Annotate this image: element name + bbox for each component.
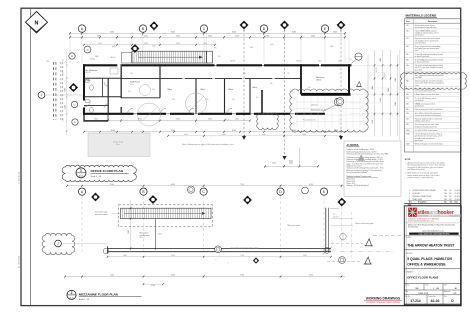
svg-text:4000: 4000 <box>262 134 266 136</box>
mezzanine grid bubble C <box>200 188 207 195</box>
svg-text:2420: 2420 <box>98 43 102 45</box>
svg-text:6100: 6100 <box>309 275 313 277</box>
small diamond marker bottom <box>253 258 259 264</box>
entry porch <box>84 115 108 122</box>
svg-text:3900: 3900 <box>138 119 142 121</box>
svg-text:9000: 9000 <box>289 160 293 162</box>
stair left landing <box>122 53 132 64</box>
window tag circles left <box>69 53 78 125</box>
svg-text:2850: 2850 <box>208 119 212 121</box>
svg-text:2650: 2650 <box>63 71 65 75</box>
svg-text:430: 430 <box>406 104 409 106</box>
svg-text:2600: 2600 <box>235 35 239 37</box>
svg-text:330: 330 <box>128 91 131 93</box>
mezzanine bottom dim line <box>107 255 332 258</box>
svg-text:A1 NOTES: A1 NOTES <box>347 144 359 147</box>
mezzanine top dim line <box>66 184 345 187</box>
svg-text:www.stilesandhooker.co.nz: www.stilesandhooker.co.nz <box>422 229 444 232</box>
svg-text:360: 360 <box>172 99 175 101</box>
svg-text:Wall = R2.2: Wall = R2.2 <box>347 179 355 181</box>
svg-text:85 m²: 85 m² <box>116 143 121 146</box>
svg-text:6100: 6100 <box>171 184 175 186</box>
svg-text:T420: T420 <box>406 143 410 145</box>
mezzanine floor edge <box>103 246 331 253</box>
office plan top extension lines <box>70 32 349 64</box>
left margin fold line <box>30 8 32 305</box>
svg-text:protection barrier: protection barrier <box>95 213 108 216</box>
svg-text:3600: 3600 <box>176 35 180 37</box>
svg-text:Note: all dimensions to edge o: Note: all dimensions to edge of slab and… <box>182 143 235 146</box>
office inner north wall with windows <box>121 77 302 79</box>
svg-text:17-214: 17-214 <box>410 299 420 303</box>
svg-text:3500: 3500 <box>97 35 101 37</box>
svg-text:4575: 4575 <box>112 46 116 48</box>
svg-text:17-214 A1-02: 17-214 A1-02 <box>18 171 21 184</box>
mezzanine left leader text <box>95 212 121 216</box>
detail balloon circle office <box>186 93 207 114</box>
svg-text:Toilet: Toilet <box>86 79 91 82</box>
svg-text:BC: BC <box>450 193 452 195</box>
svg-text:2800: 2800 <box>144 35 148 37</box>
svg-text:7700: 7700 <box>240 275 244 277</box>
mezzanine floor plan title <box>67 290 142 301</box>
svg-text:OFFICE & WAREHOUSE: OFFICE & WAREHOUSE <box>407 263 446 267</box>
office plan top dimension line row 2 <box>69 35 346 38</box>
svg-text:6100: 6100 <box>111 130 115 132</box>
grid bubble C top <box>200 25 207 32</box>
office bottom exterior wall <box>83 113 325 115</box>
svg-text:7700: 7700 <box>240 184 244 186</box>
mezzanine lower dim row <box>64 275 345 287</box>
staff room partition <box>121 64 160 98</box>
revision cloud small <box>257 113 279 130</box>
svg-text:210: 210 <box>243 73 246 75</box>
grid bubble B top <box>139 25 146 32</box>
svg-text:Scale 1 : 50: Scale 1 : 50 <box>91 176 102 178</box>
mezzanine right wall <box>323 208 347 255</box>
svg-text:250: 250 <box>63 59 65 62</box>
svg-text:150 min: 150 min <box>333 217 339 219</box>
concrete yard shaded <box>88 133 150 157</box>
working drawings stamp <box>364 297 402 304</box>
section diamond topleft <box>131 44 139 52</box>
svg-text:3200: 3200 <box>380 98 382 102</box>
svg-text:WORKING DRAWINGS: WORKING DRAWINGS <box>366 297 400 301</box>
svg-text:mezz edge protection barrier t: mezz edge protection barrier to detail <box>231 246 259 249</box>
svg-text:Item: Item <box>406 20 410 23</box>
svg-text:landing: landing <box>90 59 95 61</box>
svg-text:Drawing No.: Drawing No. <box>428 296 436 298</box>
dashed leader y235 <box>373 235 403 237</box>
svg-text:JUNE 2018: JUNE 2018 <box>418 293 429 295</box>
section marker diamond top at x=244 <box>240 21 249 31</box>
section line x284.5 <box>283 30 287 160</box>
svg-text:340: 340 <box>406 65 409 67</box>
svg-text:A1-02: A1-02 <box>431 299 440 303</box>
svg-text:Mezz safe barrier gate: Mezz safe barrier gate <box>356 222 374 225</box>
svg-text:Office: Office <box>167 89 172 91</box>
svg-text:5800: 5800 <box>372 86 374 90</box>
svg-text:360: 360 <box>406 81 409 83</box>
svg-text:RE ISSUED: RE ISSUED <box>413 193 421 195</box>
svg-text:350: 350 <box>406 73 409 75</box>
svg-text:MB: MB <box>445 196 447 198</box>
svg-text:520: 520 <box>406 124 409 126</box>
right dim extra marks <box>368 50 400 140</box>
section marker diamond top at x=341 <box>337 21 346 31</box>
svg-text:DISTRIBUTED FOR BUILDING CONSE: DISTRIBUTED FOR BUILDING CONSENT PURPOSE… <box>366 302 400 304</box>
svg-text:6100: 6100 <box>171 275 175 277</box>
mezzanine section diamond at x=95.5 <box>91 193 99 201</box>
svg-text:A1 ORIGINAL: A1 ORIGINAL <box>18 255 21 268</box>
title block client <box>404 236 461 250</box>
office bottom dim row 1 <box>83 119 251 122</box>
svg-text:1200 W: 1200 W <box>230 61 236 63</box>
svg-text:1 : 100: 1 : 100 <box>433 288 440 290</box>
revision cloud on legend <box>401 73 467 90</box>
A1 notes box <box>344 141 401 196</box>
svg-text:NOTE:: NOTE: <box>405 159 411 161</box>
svg-text:6100: 6100 <box>110 31 114 33</box>
svg-text:Scale: Scale <box>425 284 429 286</box>
svg-text:22.05.18: 22.05.18 <box>455 193 461 195</box>
dashdot line right of mezzanine <box>340 251 394 253</box>
title block contact text <box>404 218 461 235</box>
svg-text:210: 210 <box>287 73 290 75</box>
misc small dims near stair <box>90 44 352 62</box>
lower dim line right <box>264 148 319 167</box>
title block outline <box>404 206 461 306</box>
svg-text:2420: 2420 <box>94 119 98 121</box>
misc material tags in rooms <box>110 56 311 121</box>
svg-text:finish.: finish. <box>415 50 420 52</box>
mezzanine grid dashed lines <box>82 196 342 253</box>
svg-text:6100: 6100 <box>171 31 175 33</box>
detail tag right top <box>352 53 363 64</box>
mezzanine section diamond at x=341.8 <box>338 198 346 206</box>
svg-text:6100: 6100 <box>110 275 114 277</box>
section line x244 <box>242 30 246 140</box>
svg-text:MB: MB <box>445 190 447 192</box>
svg-text:1200: 1200 <box>338 61 342 63</box>
svg-text:T410: T410 <box>406 134 410 136</box>
svg-text:6100: 6100 <box>309 184 313 186</box>
detail balloon circle lobby <box>138 103 161 126</box>
svg-text:90: 90 <box>350 59 352 61</box>
mezzanine stair <box>121 208 212 218</box>
svg-text:MB: MB <box>445 193 447 195</box>
150 min dim <box>331 214 353 219</box>
svg-text:21.03.18: 21.03.18 <box>455 199 461 201</box>
svg-text:6100: 6100 <box>171 130 175 132</box>
svg-text:Office: Office <box>252 87 257 89</box>
svg-text:300: 300 <box>406 54 409 56</box>
svg-text:Office: Office <box>228 89 233 91</box>
svg-text:3400: 3400 <box>128 230 130 234</box>
svg-text:Rev: Rev <box>444 296 447 298</box>
slab note text <box>182 143 235 146</box>
svg-text:6600: 6600 <box>395 102 397 106</box>
svg-text:BUILDING CONSENT ISSUE: BUILDING CONSENT ISSUE <box>413 196 432 198</box>
svg-text:6100: 6100 <box>232 31 236 33</box>
mezzanine left cloud <box>42 233 75 254</box>
svg-text:330: 330 <box>406 59 409 61</box>
svg-text:170: 170 <box>406 38 409 40</box>
svg-text:360: 360 <box>232 99 235 101</box>
svg-text:3600: 3600 <box>176 43 180 45</box>
section line x341 <box>339 30 343 140</box>
svg-text:Email: info@stilesandhooker.co: Email: info@stilesandhooker.co.nz <box>408 220 434 223</box>
svg-text:3665: 3665 <box>250 47 254 49</box>
svg-text:440: 440 <box>406 109 409 111</box>
svg-text:6100: 6100 <box>110 184 114 186</box>
mezzanine grid bubble E <box>320 188 327 195</box>
svg-text:5600: 5600 <box>95 56 99 58</box>
staff room table <box>140 85 151 96</box>
svg-text:Warehouse (part): Warehouse (part) <box>311 108 326 111</box>
svg-text:4000: 4000 <box>222 134 226 136</box>
north arrow <box>26 12 48 34</box>
svg-text:2100: 2100 <box>151 285 155 287</box>
svg-text:2725: 2725 <box>152 45 156 47</box>
svg-text:2400: 2400 <box>64 105 66 109</box>
dashed vertical x352 <box>351 212 353 262</box>
svg-text:WC 01: WC 01 <box>86 72 91 74</box>
office bottom dim row 3 <box>167 134 340 137</box>
office top exterior wall <box>83 64 352 66</box>
svg-text:2800: 2800 <box>144 43 148 45</box>
svg-text:Office: Office <box>200 89 205 91</box>
svg-text:6100: 6100 <box>292 31 296 33</box>
svg-text:1900: 1900 <box>203 43 207 45</box>
svg-text:BC: BC <box>450 199 452 201</box>
svg-text:370: 370 <box>256 97 259 99</box>
svg-text:300: 300 <box>270 83 273 85</box>
office plan top dimension line row 1 <box>69 31 346 34</box>
grid bubble D top <box>260 25 267 32</box>
mezzanine section diamond at x=247.5 <box>243 196 251 204</box>
mezzanine dashed outline <box>119 205 213 227</box>
svg-text:900: 900 <box>218 56 221 58</box>
svg-text:1,200 max: 1,200 max <box>311 104 318 106</box>
right note list <box>405 159 446 179</box>
svg-text:Description: Description <box>428 20 437 23</box>
svg-text:Grass Yard: Grass Yard <box>113 142 123 144</box>
svg-text:CLIENT: CLIENT <box>406 237 412 239</box>
svg-text:6100: 6100 <box>232 130 236 132</box>
svg-text:Scale 1 : 50: Scale 1 : 50 <box>79 299 89 301</box>
grid bubble E top <box>321 25 328 32</box>
section arrow A lower <box>327 257 372 264</box>
svg-text:5 QUAIL PLACE, HAMILTON: 5 QUAIL PLACE, HAMILTON <box>407 257 452 261</box>
svg-text:BC: BC <box>450 196 452 198</box>
mezzanine grid bubble B <box>140 188 147 195</box>
mezzanine detail tag double circle <box>187 186 194 193</box>
mezzanine section diamond at x=153 <box>149 195 157 203</box>
small up arrow mark <box>215 259 228 265</box>
svg-text:6000: 6000 <box>272 163 276 165</box>
wc fixtures <box>86 68 119 113</box>
svg-text:410: 410 <box>308 87 311 89</box>
mezzanine left bubble <box>55 240 107 247</box>
right dimension lines <box>350 50 399 136</box>
svg-text:1200: 1200 <box>63 118 65 122</box>
svg-text:18.04.18: 18.04.18 <box>455 196 461 198</box>
mezzanine left dim vertical <box>128 200 131 252</box>
awning dashed lines left <box>54 62 63 120</box>
title block data grid <box>404 283 461 304</box>
svg-text:410: 410 <box>406 94 409 96</box>
svg-text:MATERIALS LEGEND: MATERIALS LEGEND <box>406 13 437 17</box>
svg-text:2550: 2550 <box>235 119 239 121</box>
svg-text:210: 210 <box>406 46 409 48</box>
office right wall <box>348 64 350 95</box>
revision cloud warehouse <box>290 89 368 132</box>
revision table <box>404 190 461 206</box>
svg-text:Roof = R3.2: Roof = R3.2 <box>347 181 356 183</box>
svg-text:4100: 4100 <box>302 134 306 136</box>
office floor plan title cloud <box>62 165 136 182</box>
svg-text:3600: 3600 <box>184 134 188 136</box>
svg-text:1800: 1800 <box>380 58 382 62</box>
section marker diamond top at x=154 <box>150 22 159 31</box>
section arrow A right wall <box>356 81 362 86</box>
svg-text:420: 420 <box>406 98 409 100</box>
svg-text:11.06.18: 11.06.18 <box>455 190 461 192</box>
mezzanine tags on floor edge <box>215 246 259 253</box>
toilet block partitions <box>84 64 121 114</box>
svg-text:MEZZANINE FLOOR PLAN: MEZZANINE FLOOR PLAN <box>79 292 119 296</box>
svg-text:2400: 2400 <box>395 78 397 82</box>
office external stair <box>132 51 213 63</box>
left col extra texts <box>46 59 65 122</box>
office partitions <box>196 64 301 114</box>
svg-text:Drawn: Drawn <box>405 284 409 286</box>
svg-text:2000: 2000 <box>270 44 274 46</box>
svg-text:5050: 5050 <box>303 255 307 257</box>
room labels <box>86 69 325 91</box>
title block drawing name <box>404 271 461 284</box>
svg-text:Office: Office <box>316 79 321 81</box>
svg-text:3000: 3000 <box>289 163 293 165</box>
svg-text:88: 88 <box>333 214 335 216</box>
svg-text:6100: 6100 <box>171 255 175 257</box>
svg-text:4900: 4900 <box>64 88 66 92</box>
svg-text:2400 W: 2400 W <box>296 61 302 63</box>
svg-text:PROJECT: PROJECT <box>406 253 413 255</box>
svg-text:Floor = R1.3: Floor = R1.3 <box>347 183 356 185</box>
svg-text:160: 160 <box>130 73 133 75</box>
svg-text:370: 370 <box>406 88 409 90</box>
svg-text:storage area: storage area <box>140 234 150 237</box>
svg-text:2400: 2400 <box>311 35 315 37</box>
svg-text:OFFICE FLOOR PLANS: OFFICE FLOOR PLANS <box>407 275 438 279</box>
section marker diamond top at x=284.5 <box>280 21 289 31</box>
svg-text:340: 340 <box>152 89 155 91</box>
svg-text:500: 500 <box>406 113 409 115</box>
tag circle topleft <box>84 46 91 53</box>
svg-text:↑: ↑ <box>227 262 228 265</box>
mezzanine tag right lower <box>339 257 346 264</box>
grid bubble J left <box>38 92 83 99</box>
svg-text:9000: 9000 <box>388 88 390 92</box>
barrier gate note <box>330 222 373 226</box>
office bottom dim row 2 <box>83 130 345 133</box>
door swing arcs <box>84 82 232 114</box>
mezzanine grid bubble A <box>78 188 85 195</box>
warehouse heavy wall <box>301 93 351 96</box>
svg-text:MB: MB <box>445 199 447 201</box>
svg-text:360: 360 <box>206 99 209 101</box>
svg-text:Size: Size <box>444 284 447 286</box>
materials legend table <box>404 13 461 152</box>
svg-text:8343: 8343 <box>158 234 162 236</box>
svg-text:T400: T400 <box>406 130 410 132</box>
svg-text:150: 150 <box>406 25 409 27</box>
svg-text:3600: 3600 <box>123 255 127 257</box>
svg-text:3600: 3600 <box>176 119 180 121</box>
mezzanine room text <box>140 224 301 239</box>
section diamond left <box>69 83 78 92</box>
svg-text:3400: 3400 <box>265 35 269 37</box>
svg-text:1: 1 <box>80 169 82 173</box>
svg-text:160: 160 <box>406 31 409 33</box>
svg-text:N: N <box>35 20 39 26</box>
svg-text:2250: 2250 <box>372 120 374 124</box>
mezzanine stair lower vertical <box>154 219 156 250</box>
title block project <box>404 253 461 269</box>
mezzanine grid bubble D <box>277 188 284 195</box>
detail tag right mid <box>334 98 342 106</box>
svg-text:Job No.: Job No. <box>405 296 410 298</box>
svg-text:2: 2 <box>71 291 73 295</box>
svg-text:Office area under: Office area under <box>287 224 300 227</box>
svg-text:975: 975 <box>214 48 217 50</box>
svg-text:OFFICE FLOOR PLAN: OFFICE FLOOR PLAN <box>91 169 124 173</box>
svg-text:BC: BC <box>450 190 452 192</box>
mezzanine tag circle x305 <box>302 187 309 194</box>
office floor plan title <box>76 168 129 178</box>
svg-text:ISSUED FOR BUILDING CONSENT: ISSUED FOR BUILDING CONSENT <box>413 190 437 192</box>
stair dim row <box>83 43 215 46</box>
svg-text:6100: 6100 <box>330 46 334 48</box>
left margin vertical text marks <box>18 171 21 268</box>
stiles and hooker logo <box>408 208 460 218</box>
office left exterior wall <box>83 64 85 115</box>
svg-text:THE ARROW HEATON TRUST: THE ARROW HEATON TRUST <box>407 244 454 248</box>
svg-text:2800: 2800 <box>208 35 212 37</box>
left dimension line <box>64 52 67 135</box>
svg-text:Glazing = R0.26 double glaz: Glazing = R0.26 double glazed <box>347 185 369 187</box>
svg-text:7700: 7700 <box>240 255 244 257</box>
svg-text:510: 510 <box>406 119 409 121</box>
svg-text:7430: 7430 <box>46 61 50 63</box>
section arrow A upper <box>331 239 373 246</box>
svg-text:Staff Room: Staff Room <box>130 81 140 84</box>
svg-text:2000: 2000 <box>333 31 337 33</box>
svg-text:1200: 1200 <box>318 61 322 63</box>
svg-text:Acc Washroom: Acc Washroom <box>86 69 99 72</box>
grid bubble A top <box>78 25 85 32</box>
